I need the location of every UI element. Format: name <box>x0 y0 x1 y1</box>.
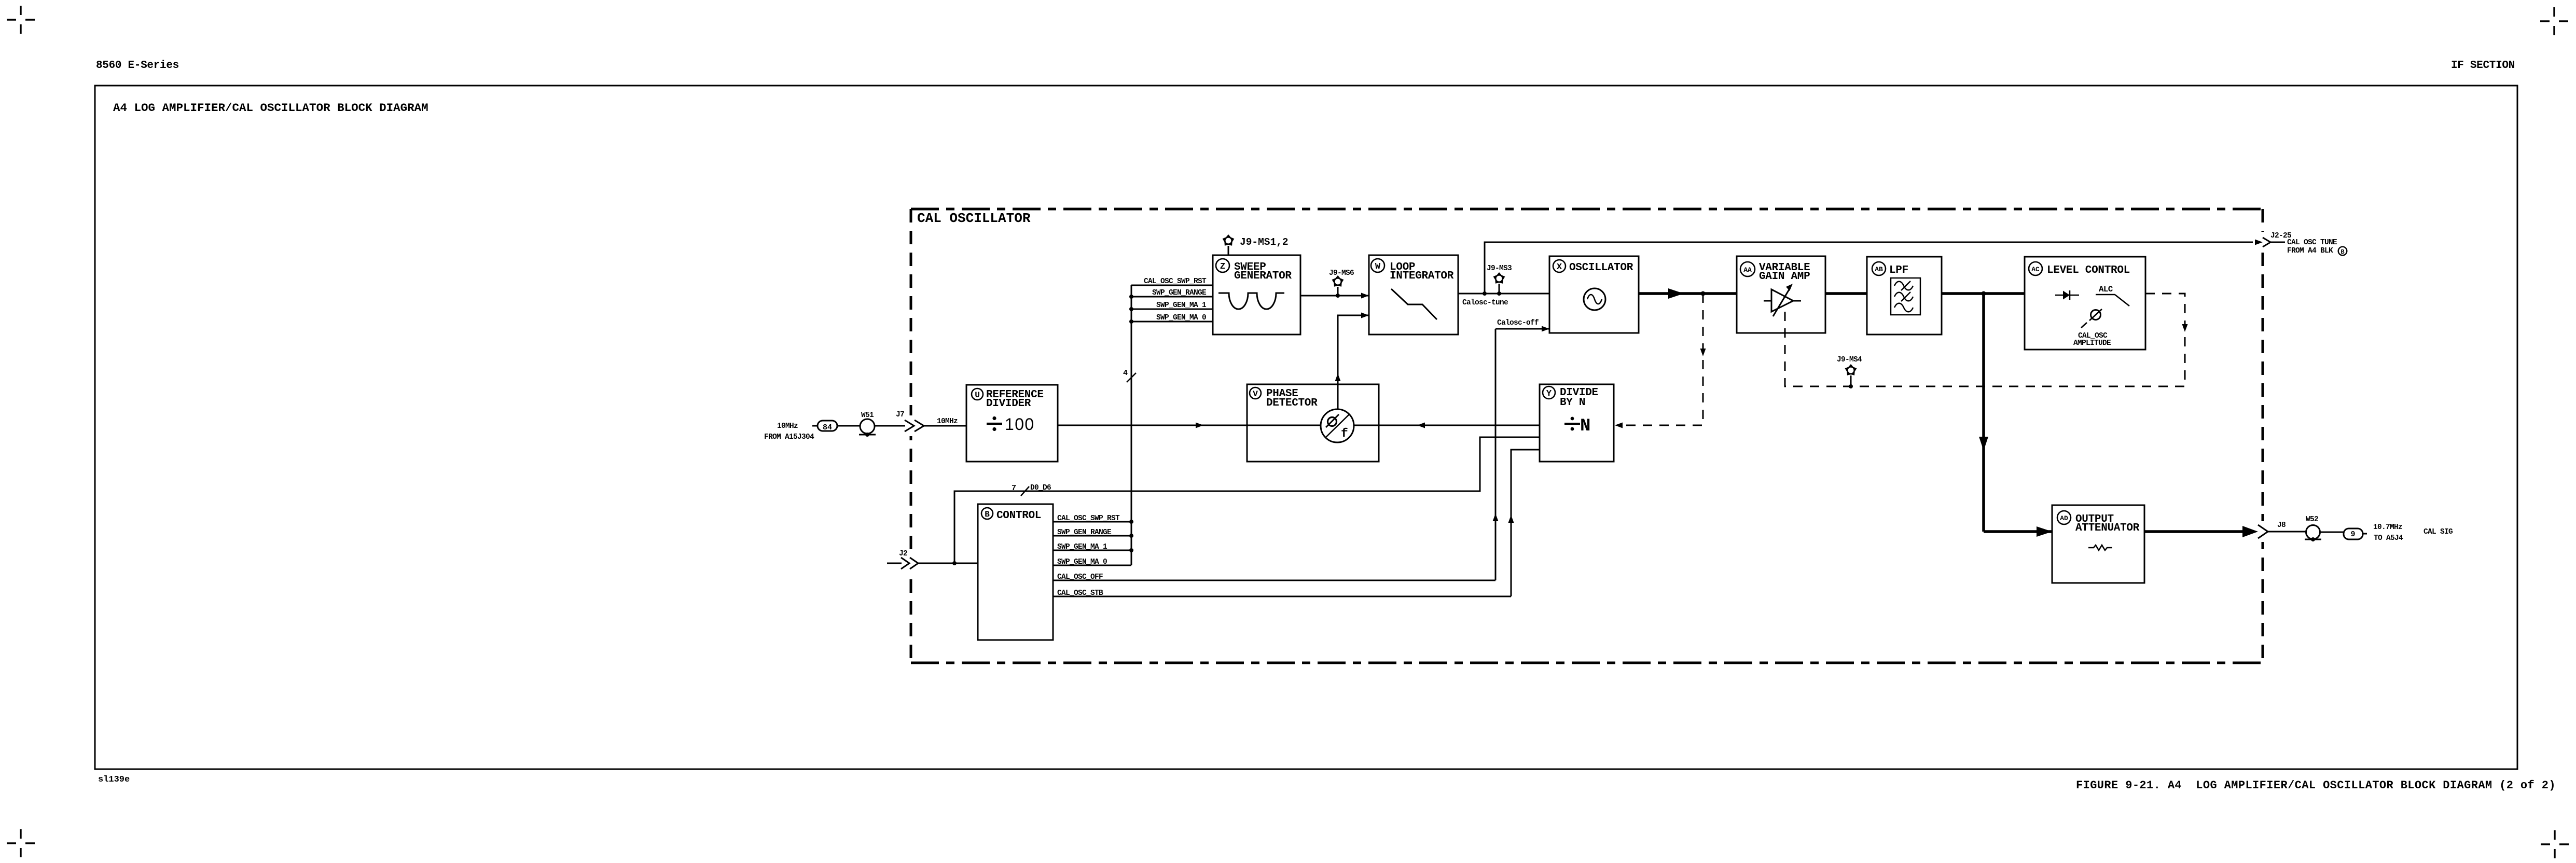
variable gain amp AA block <box>1737 256 1825 333</box>
svg-text:N: N <box>1580 416 1590 436</box>
registration mark top-right <box>2540 7 2568 35</box>
output attenuator AD block <box>2052 505 2144 583</box>
node oscillator output junction <box>1701 291 1706 296</box>
wire D0_D6 bus <box>954 437 1540 563</box>
svg-text:CAL_OSC_OFF: CAL_OSC_OFF <box>1057 573 1103 581</box>
svg-text:AD: AD <box>2060 514 2068 522</box>
registration mark bottom-right <box>2541 830 2569 858</box>
svg-text:J9-MS4: J9-MS4 <box>1837 356 1862 364</box>
node 9 <box>2344 528 2363 539</box>
node J9-MS6 junction <box>1336 294 1340 298</box>
svg-text:TO A5J4: TO A5J4 <box>2374 534 2403 542</box>
node 84 <box>812 425 818 427</box>
phase detector circle symbol <box>1321 409 1354 442</box>
svg-text:sl139e: sl139e <box>98 775 130 785</box>
node Calosc-tune junction <box>1483 291 1487 296</box>
variable gain amp symbol <box>1764 288 1801 316</box>
svg-text:B: B <box>985 510 990 519</box>
svg-text:D0_D6: D0_D6 <box>1030 484 1051 492</box>
wire reference divider to phase detector and divide-by-N <box>1058 425 1540 426</box>
svg-text:J2: J2 <box>899 550 907 558</box>
wire W52 to node 9 <box>2320 532 2344 533</box>
svg-text:U: U <box>975 391 980 400</box>
wire loop integrator to oscillator Calosc-tune <box>1458 293 1549 295</box>
attenuator resistor symbol <box>2088 545 2112 550</box>
sweep generator Z block <box>1213 255 1300 335</box>
test point star J9-MS4 <box>1846 365 1857 375</box>
loop integrator W block <box>1369 255 1458 335</box>
svg-text:8560 E-Series: 8560 E-Series <box>96 60 179 72</box>
wire control block outputs <box>1053 522 1511 596</box>
oscillator sine circle symbol <box>1584 288 1605 310</box>
svg-text:LPF: LPF <box>1889 265 1908 276</box>
integrator slope symbol <box>1391 289 1437 319</box>
svg-text:SWP_GEN_MA 1: SWP_GEN_MA 1 <box>1156 301 1207 310</box>
ALC switch symbol <box>2096 295 2129 306</box>
wire W51 to J7 <box>875 425 905 427</box>
svg-text:9: 9 <box>2350 530 2355 539</box>
node J9-MS4 junction <box>1849 384 1853 388</box>
LPF filter symbol <box>1891 278 1920 315</box>
svg-text:CAL SIG: CAL SIG <box>2423 528 2453 536</box>
wire main output down to attenuator thick <box>1982 294 1985 532</box>
wire J2 to control <box>918 563 978 564</box>
svg-text:IF SECTION: IF SECTION <box>2451 60 2515 72</box>
svg-text:BY N: BY N <box>1560 397 1585 409</box>
svg-text:FIGURE 9-21. A4 LOG AMPLIFIER: FIGURE 9-21. A4 LOG AMPLIFIER/CAL OSCILL… <box>2076 779 2556 792</box>
divide-by-N symbol <box>1564 416 1590 436</box>
svg-text:OSCILLATOR: OSCILLATOR <box>1569 262 1633 274</box>
svg-text:SWP_GEN_RANGE: SWP_GEN_RANGE <box>1057 528 1112 537</box>
cal osc amplitude adjust symbol <box>2091 310 2101 320</box>
svg-text:10.7MHz: 10.7MHz <box>2373 523 2402 532</box>
wire 84 to W51 <box>837 425 860 427</box>
svg-text:DIVIDER: DIVIDER <box>986 398 1031 410</box>
connector J2-25 chevron <box>2255 240 2263 245</box>
oscillator X block <box>1549 256 1639 333</box>
svg-text:SWP_GEN_MA 0: SWP_GEN_MA 0 <box>1057 558 1107 566</box>
wire oscillator output thick <box>1639 292 1737 295</box>
node J9-MS3 junction <box>1497 291 1501 296</box>
test point star J9-MS1,2 <box>1223 235 1234 245</box>
diode symbol <box>2055 290 2079 300</box>
svg-text:J9-MS1,2: J9-MS1,2 <box>1240 236 1289 248</box>
divide by N Y block <box>1540 384 1614 462</box>
svg-text:ATTENUATOR: ATTENUATOR <box>2075 522 2140 534</box>
svg-text:A4 LOG AMPLIFIER/CAL OSCILLATO: A4 LOG AMPLIFIER/CAL OSCILLATOR BLOCK DI… <box>113 101 428 115</box>
wire LPF to level control thick <box>1942 292 2025 295</box>
sweep waveform symbol <box>1218 293 1284 309</box>
svg-text:SWP_GEN_RANGE: SWP_GEN_RANGE <box>1152 289 1207 297</box>
svg-text:DETECTOR: DETECTOR <box>1266 397 1318 409</box>
svg-text:W: W <box>1375 262 1381 272</box>
bus width 4 tick <box>1127 373 1136 382</box>
svg-text:CAL OSCILLATOR: CAL OSCILLATOR <box>917 211 1031 226</box>
wire cal osc tune to J2-25 <box>1485 242 2253 294</box>
svg-text:CAL_OSC_STB: CAL_OSC_STB <box>1057 589 1103 597</box>
svg-text:GENERATOR: GENERATOR <box>1234 270 1292 282</box>
svg-text:ALC: ALC <box>2099 285 2113 294</box>
control B block <box>978 504 1053 640</box>
svg-text:SWP_GEN_MA 0: SWP_GEN_MA 0 <box>1156 314 1206 322</box>
svg-text:Calosc-off: Calosc-off <box>1497 319 1539 327</box>
node J2 bus junction <box>952 561 957 565</box>
svg-text:LEVEL CONTROL: LEVEL CONTROL <box>2047 265 2130 276</box>
svg-text:J7: J7 <box>896 411 904 419</box>
svg-text:W52: W52 <box>2306 516 2318 524</box>
svg-text:FROM A15J304: FROM A15J304 <box>764 433 814 441</box>
svg-text:J9-MS3: J9-MS3 <box>1487 265 1512 273</box>
svg-text:AA: AA <box>1743 266 1752 274</box>
connector J8 chevron <box>2258 525 2268 538</box>
svg-text:Calosc-tune: Calosc-tune <box>1462 299 1508 307</box>
wire J2 input <box>887 563 902 564</box>
svg-text:4: 4 <box>1123 369 1128 378</box>
white gaps in boundary at wire crossings <box>905 232 2268 574</box>
svg-text:AB: AB <box>1875 266 1883 273</box>
svg-text:CAL OSC TUNE: CAL OSC TUNE <box>2287 239 2337 247</box>
bus width 7 tick <box>1021 486 1029 496</box>
node circled B reference <box>2338 247 2347 256</box>
svg-text:Y: Y <box>1546 389 1552 399</box>
svg-text:10MHz: 10MHz <box>937 417 958 426</box>
svg-text:AC: AC <box>2031 266 2040 273</box>
wire J8 to W52 <box>2268 531 2306 533</box>
svg-text:CONTROL: CONTROL <box>996 510 1041 522</box>
svg-text:f: f <box>1341 427 1348 440</box>
svg-text:84: 84 <box>823 423 832 432</box>
phase detector V block <box>1247 384 1379 462</box>
reference divider U1 block <box>966 385 1058 462</box>
connector J2 chevrons <box>901 558 909 569</box>
svg-text:GAIN AMP: GAIN AMP <box>1759 271 1810 283</box>
wire dashed feedback to divide-by-N <box>1623 294 1703 425</box>
svg-text:J9-MS6: J9-MS6 <box>1329 269 1354 277</box>
svg-text:CAL_OSC_SWP_RST: CAL_OSC_SWP_RST <box>1144 277 1207 286</box>
svg-text:INTEGRATOR: INTEGRATOR <box>1390 270 1454 282</box>
svg-text:Z: Z <box>1220 262 1225 272</box>
page frame border <box>95 86 2517 769</box>
wire CAL_OSC_OFF riser <box>1495 329 1497 580</box>
level control AC block <box>2025 257 2145 350</box>
wire 4-bit bus vertical <box>1131 285 1132 565</box>
wire Calosc-off into oscillator <box>1495 328 1549 330</box>
svg-text:B: B <box>2340 248 2344 256</box>
svg-text:CAL_OSC_SWP_RST: CAL_OSC_SWP_RST <box>1057 514 1120 523</box>
svg-text:100: 100 <box>1005 415 1035 434</box>
wire sweep control lines into sweep generator <box>1131 285 1213 322</box>
svg-text:SWP_GEN_MA 1: SWP_GEN_MA 1 <box>1057 543 1107 551</box>
svg-text:X: X <box>1557 262 1562 272</box>
wire J7 to reference divider <box>924 425 966 427</box>
test point star J9-MS6 <box>1333 276 1344 286</box>
wire CAL_OSC_STB riser <box>1511 450 1540 596</box>
CAL OSCILLATOR dashed boundary box <box>911 209 2263 663</box>
wire variable gain amp to LPF thick <box>1825 292 1867 295</box>
wire phase detector output to loop integrator <box>1338 315 1369 409</box>
svg-text:V: V <box>1253 389 1258 399</box>
svg-text:10MHz: 10MHz <box>777 422 798 430</box>
svg-text:AMPLITUDE: AMPLITUDE <box>2073 339 2111 347</box>
svg-text:J8: J8 <box>2277 521 2286 530</box>
test point star J9-MS3 <box>1494 273 1505 283</box>
wire sweep generator to loop integrator <box>1300 295 1369 297</box>
divide-by-100 symbol <box>987 415 1035 434</box>
registration mark top-left <box>7 6 35 34</box>
LPF AB block <box>1867 257 1942 335</box>
registration mark bottom-left <box>7 829 35 857</box>
wire ALC dashed feedback loop <box>1785 294 2185 386</box>
wire attenuator output to J8 thick <box>2144 530 2246 533</box>
svg-text:7: 7 <box>1012 484 1016 493</box>
svg-text:FROM A4 BLK: FROM A4 BLK <box>2287 247 2333 255</box>
